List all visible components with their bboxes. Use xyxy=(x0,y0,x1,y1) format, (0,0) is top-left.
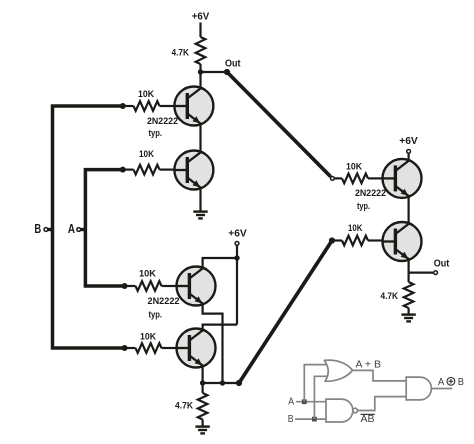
svg-text:4.7K: 4.7K xyxy=(381,291,399,302)
node dot A bus to R2 xyxy=(120,167,126,173)
junction square B xyxy=(312,417,317,422)
wire Q2 emitter to ground xyxy=(199,187,201,212)
svg-text:B: B xyxy=(458,377,465,388)
terminal circle Out (right) xyxy=(434,271,438,275)
node dot A bus to R3 xyxy=(122,283,128,289)
resistor R3 10K (Q3 base) xyxy=(125,281,177,291)
ground G2 (right) xyxy=(401,315,415,322)
node dot Q4 emitter junction xyxy=(200,380,205,385)
svg-text:+6V: +6V xyxy=(192,10,210,22)
ground G1 (Q2 emitter) xyxy=(193,212,207,219)
svg-text:A: A xyxy=(68,222,75,236)
input terminal A xyxy=(68,222,86,236)
svg-text:4.7K: 4.7K xyxy=(172,48,190,59)
node junction +6V middle xyxy=(234,255,239,260)
svg-text:+6V: +6V xyxy=(399,135,418,147)
wire A bus (thick) xyxy=(85,170,124,286)
transistor Q5 2N2222 xyxy=(383,159,422,198)
wire OR output to AND xyxy=(353,370,407,381)
wire Q3 collector to +6V node xyxy=(203,258,237,268)
svg-text:10K: 10K xyxy=(348,223,363,234)
wire bottom node to R9 xyxy=(202,383,204,393)
svg-text:10K: 10K xyxy=(138,89,154,100)
power +6V supply (top) xyxy=(192,10,210,22)
node dot OR output tap xyxy=(236,380,242,386)
svg-text:2N2222: 2N2222 xyxy=(148,296,180,307)
svg-text:AB: AB xyxy=(361,414,375,425)
node dot B bus to R4 xyxy=(122,345,128,351)
resistor R8 4.7K (right pull-down) xyxy=(404,282,414,308)
svg-text:typ.: typ. xyxy=(357,201,370,212)
resistor R5 10K (Q5 base) xyxy=(334,174,382,184)
svg-text:10K: 10K xyxy=(140,332,156,343)
input terminal B xyxy=(34,222,52,236)
wire R7 to node Out1 xyxy=(199,64,201,72)
svg-text:10K: 10K xyxy=(139,269,156,280)
power +6V supply (middle) xyxy=(228,227,247,245)
wire +6V middle to node xyxy=(236,245,238,258)
transistor Q4 2N2222 xyxy=(177,329,216,368)
wire R9 to ground xyxy=(202,420,204,427)
wire node Out1 to Out tap xyxy=(201,71,228,73)
svg-text:10K: 10K xyxy=(346,162,362,173)
transistor Q2 2N2222 xyxy=(174,151,213,190)
node junction Out1 xyxy=(198,69,203,74)
svg-text:4.7K: 4.7K xyxy=(175,401,193,412)
wire B bus (thick) xyxy=(53,106,125,348)
node dot Q3 emitter junction xyxy=(220,380,225,385)
NAND gate U2 (AB) xyxy=(326,399,358,422)
wire +6V right to Q5 collector xyxy=(408,153,410,162)
label AB with overline xyxy=(361,414,375,425)
wire Q4 emitter to bottom node xyxy=(202,365,204,383)
AND gate U3 (output) xyxy=(406,377,431,400)
resistor R7 4.7K (top pull-up) xyxy=(196,37,206,64)
wire +6V to R7 xyxy=(199,23,201,38)
wire logic B input xyxy=(295,418,326,420)
svg-text:2N2222: 2N2222 xyxy=(355,188,386,199)
wire logic A branch to OR xyxy=(304,365,328,402)
wire Out node to R8 xyxy=(408,273,410,282)
wire Q6 emitter to Out node xyxy=(408,258,410,273)
power +6V supply (right) xyxy=(399,135,418,154)
terminal circle (R5 input) xyxy=(331,177,335,181)
svg-text:B: B xyxy=(288,414,294,425)
wire Q1 collector to node xyxy=(199,72,201,89)
svg-text:A: A xyxy=(288,397,294,408)
wire Q1 emitter to Q2 collector xyxy=(199,123,201,153)
svg-text:typ.: typ. xyxy=(149,309,163,320)
wire R8 to ground xyxy=(408,308,410,315)
wire NAND output to AND xyxy=(358,397,407,411)
wire Q4 collector riser xyxy=(203,325,237,330)
node Out tap dot xyxy=(224,69,230,75)
resistor R1 10K (Q1 base) xyxy=(123,101,175,111)
resistor R2 10K (Q2 base) xyxy=(123,165,175,175)
OR gate U1 (A+B) xyxy=(324,360,352,381)
svg-text:B: B xyxy=(34,222,41,236)
svg-text:typ.: typ. xyxy=(149,128,163,139)
transistor Q3 2N2222 xyxy=(177,267,216,306)
label 2N2222 typ. (Q5) xyxy=(355,188,386,212)
svg-text:A + B: A + B xyxy=(356,360,382,371)
wire +6V node down leg xyxy=(236,258,238,325)
wire thick diagonal Out1 to R5 xyxy=(227,72,330,176)
junction square A xyxy=(302,399,307,404)
wire bottom node (OR output) xyxy=(203,382,239,384)
resistor R6 10K (Q6 base) xyxy=(332,236,383,246)
resistor R4 10K (Q4 base) xyxy=(125,343,177,353)
svg-text:+6V: +6V xyxy=(228,227,247,239)
wire Q3 emitter to bottom node xyxy=(203,304,223,383)
wire AND output xyxy=(431,388,452,390)
label 2N2222 typ. (Q3) xyxy=(148,296,180,320)
transistor Q6 2N2222 xyxy=(383,222,422,261)
svg-text:10K: 10K xyxy=(139,149,154,160)
label 2N2222 typ. (Q1) xyxy=(147,116,178,139)
node dot R6 input xyxy=(329,237,335,243)
svg-text:2N2222: 2N2222 xyxy=(147,116,178,127)
wire thick diagonal OR node to R6 xyxy=(239,241,332,384)
transistor Q1 2N2222 xyxy=(174,87,213,126)
resistor R9 4.7K (OR pull-down) xyxy=(198,393,208,420)
node dot B bus to R1 xyxy=(120,103,126,109)
ground G3 (bottom) xyxy=(195,427,209,434)
wire logic A input xyxy=(296,401,326,403)
wire Out node to terminal xyxy=(409,272,434,274)
wire Q5 emitter to Q6 collector xyxy=(408,195,410,225)
svg-text:Out: Out xyxy=(434,258,450,269)
wire logic B branch to OR xyxy=(314,376,328,419)
label A xor B xyxy=(438,377,464,388)
svg-text:A: A xyxy=(438,377,445,388)
svg-text:Out: Out xyxy=(225,58,241,69)
